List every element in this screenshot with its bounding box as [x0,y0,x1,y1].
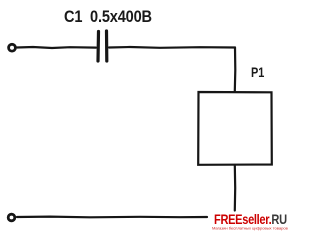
capacitor C1 [96,32,100,62]
wire bottom [17,216,207,219]
label P1 [251,64,264,80]
watermark slogan [212,226,284,230]
terminal top-left [9,44,16,51]
wire P1 box down [234,165,237,211]
wire capacitor to corner [109,46,235,49]
component box P1 [198,92,272,165]
wire corner down to P1 box [234,48,237,92]
watermark logo [214,211,287,227]
terminal bottom-left [8,214,15,221]
label C1 value [64,7,152,27]
wire top-left to capacitor [17,47,96,48]
